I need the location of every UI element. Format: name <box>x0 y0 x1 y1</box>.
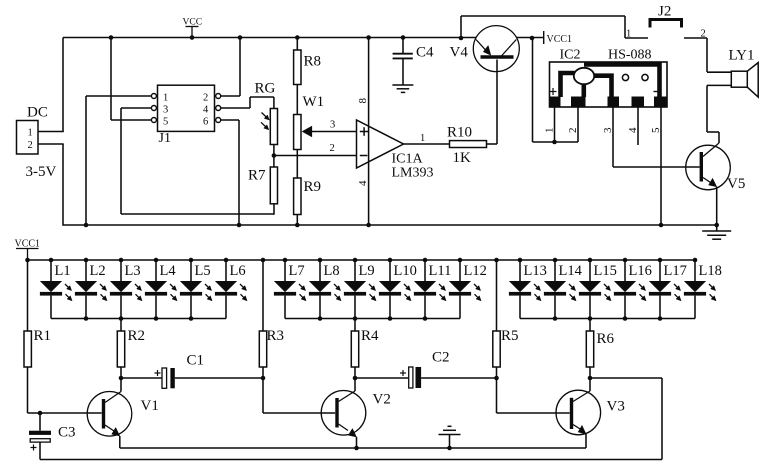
LED L18 <box>684 260 706 319</box>
junction cathode rail at x=355 <box>353 316 358 321</box>
svg-text:R3: R3 <box>267 328 285 344</box>
wire R3 bottom to V2 base <box>262 367 264 413</box>
junction IC2 pin1 on tie wire <box>552 140 557 145</box>
LED L9 <box>344 260 366 319</box>
wire V3 collector feedback to C3 (right loop) <box>590 377 662 379</box>
emission arrows of L5 <box>205 284 212 301</box>
photoresistor RG <box>270 109 277 145</box>
minus sign inside op-amp <box>360 155 368 157</box>
thick trace chip blob down to pad2 inside IC2 <box>581 82 586 97</box>
emission arrows of L3 <box>135 284 142 301</box>
LED L1 <box>40 260 62 319</box>
emission arrows of L16 <box>639 284 646 301</box>
ic J1 connector body <box>158 85 215 131</box>
wire IC2 pin 4 stub <box>637 107 639 145</box>
junction IC2 pin5 on ground rail <box>659 223 664 228</box>
junction L8 anode on VCC1 rail <box>318 258 323 263</box>
wire J1 pin1 to ground rail <box>86 95 151 97</box>
svg-text:8: 8 <box>357 98 369 104</box>
transistor V4 (PNP) circle <box>473 26 519 72</box>
wire R2 bottom to V1 collector node <box>120 367 122 378</box>
junction cathode rail at x=191 <box>189 316 194 321</box>
svg-text:5: 5 <box>163 117 168 128</box>
wire V1 emitter to emitter bus <box>119 436 121 448</box>
thick trace pad1 to chip blob inside IC2 <box>561 73 575 97</box>
junction V5 emitter on ground rail <box>714 223 719 228</box>
junction R3 on VCC1 rail <box>261 258 266 263</box>
svg-text:V1: V1 <box>141 398 159 414</box>
wire V4 emitter junction up to J2 feed <box>460 16 462 38</box>
wire J2 pin2 to speaker top terminal <box>706 38 708 72</box>
capacitor C4 <box>402 38 404 54</box>
wire cathode rail of L13-L18 <box>520 318 695 320</box>
ground under C4 <box>392 84 413 86</box>
resistor R7 <box>270 167 277 204</box>
emitter of V4 with arrow <box>476 40 488 53</box>
potentiometer W1 <box>294 115 301 150</box>
junction cathode rail at x=86 <box>84 316 89 321</box>
transistor V1 (NPN) circle <box>87 392 132 437</box>
resistor R4 <box>354 319 356 332</box>
LED L2 <box>75 260 97 319</box>
emitter of V2 with arrow <box>339 424 349 431</box>
emission arrows of L18 <box>709 284 716 301</box>
thick trace top to minus pad inside IC2 <box>584 65 660 98</box>
emission arrows of L13 <box>534 284 541 301</box>
wire J1 pin6 to ground rail <box>221 119 239 121</box>
thick trace chip blob right to pad3 inside IC2 <box>592 76 612 97</box>
wire cathode rail of L7-L12 <box>285 318 460 320</box>
wire J2 pin 1 <box>625 37 648 39</box>
junction L4 anode on VCC1 rail <box>154 258 159 263</box>
resistor R5 <box>496 260 498 331</box>
svg-text:C4: C4 <box>416 45 434 61</box>
base bar of V2 <box>335 398 338 428</box>
wire emitter/ground bus <box>120 447 586 449</box>
junction cathode rail at x=590 <box>588 316 593 321</box>
wire W1 bottom to R9 top <box>296 150 298 179</box>
wire V3 emitter to emitter bus <box>585 434 587 448</box>
connector DC 3-5V <box>17 121 39 155</box>
light arrow 1 into RG <box>262 113 268 119</box>
svg-text:DC: DC <box>27 105 48 121</box>
resistor R8 <box>294 50 301 85</box>
plus mark of C1 <box>155 372 161 374</box>
base bar of V3 <box>570 398 573 429</box>
junction L15 anode on VCC1 rail <box>588 258 593 263</box>
svg-text:V3: V3 <box>607 399 625 415</box>
junction L3 anode on VCC1 rail <box>119 258 124 263</box>
emitter of V5 with arrow <box>703 178 712 184</box>
wire op-amp power vertical (pins 8 and 4) <box>368 38 370 226</box>
capacitor C1 (polarized) <box>121 377 163 379</box>
junction L16 anode on VCC1 rail <box>623 258 628 263</box>
wire V2 emitter to emitter bus <box>356 437 358 448</box>
junction op-amp power on ground rail <box>366 223 371 228</box>
junction R8 on VCC rail <box>295 35 300 40</box>
pad 2 of IC2 <box>571 97 586 108</box>
wire cathode rail of L1-L6 <box>51 318 226 320</box>
pin circle J1-4 <box>216 106 221 111</box>
connector J2 bracket <box>649 18 684 21</box>
junction L17 anode on VCC1 rail <box>658 258 663 263</box>
wire top feed to J2 pin 1 <box>461 15 625 17</box>
capacitor C3 (polarized) <box>39 413 41 431</box>
svg-text:J2: J2 <box>658 4 671 20</box>
junction R9 on ground rail <box>295 223 300 228</box>
wire DC pin 1 lead <box>38 131 64 133</box>
emitter of V3 with arrow <box>573 425 581 430</box>
junction V2 emitter on bus <box>354 446 359 451</box>
pin circle J1-2 <box>216 94 221 99</box>
junction L11 anode on VCC1 rail <box>423 258 428 263</box>
svg-text:3: 3 <box>163 105 168 116</box>
wire IC2 pin 3 to V5 base <box>612 107 614 167</box>
svg-text:1: 1 <box>626 29 631 40</box>
plus mark inside IC2 <box>550 91 557 93</box>
wire C4 to ground symbol <box>402 58 404 85</box>
ground on emitter bus <box>449 435 451 449</box>
emission arrows of L8 <box>334 284 341 301</box>
svg-text:RG: RG <box>255 81 276 97</box>
svg-text:L10: L10 <box>394 263 417 279</box>
emission arrows of L6 <box>240 284 247 301</box>
wire non-inverting input (pin 3 net) <box>311 131 357 133</box>
svg-text:L7: L7 <box>289 263 305 279</box>
svg-text:C3: C3 <box>58 425 76 441</box>
power symbol VCC1 (top) <box>543 31 545 44</box>
wire V5 emitter to ground rail <box>716 187 718 225</box>
junction cathode rail at x=625 <box>623 316 628 321</box>
emission arrows of L17 <box>674 284 681 301</box>
svg-text:HS-088: HS-088 <box>608 48 652 63</box>
resistor R3 <box>262 260 264 331</box>
svg-text:2: 2 <box>567 128 579 134</box>
chip blob of IC2 <box>574 68 594 84</box>
transistor V5 (NPN) circle <box>686 145 731 190</box>
svg-text:R5: R5 <box>501 328 519 344</box>
wire R5 bottom to V3 base <box>496 367 498 413</box>
LED L5 <box>180 260 202 319</box>
pad 3 of IC2 <box>608 97 620 108</box>
wire J2 pin 2 <box>684 37 707 39</box>
junction op-amp power on VCC rail <box>366 35 371 40</box>
svg-text:1: 1 <box>420 133 425 144</box>
wire op-amp output pin 1 <box>404 143 450 145</box>
svg-text:L9: L9 <box>359 263 375 279</box>
minus mark inside IC2 <box>654 91 660 93</box>
emission arrows of L15 <box>604 284 611 301</box>
svg-text:V4: V4 <box>450 45 469 61</box>
svg-text:4: 4 <box>357 180 369 186</box>
wire R8 top lead <box>296 38 298 51</box>
capacitor C2 (polarized) <box>355 377 409 379</box>
junction L9 anode on VCC1 rail <box>353 258 358 263</box>
svg-text:3-5V: 3-5V <box>26 164 57 180</box>
pad 5 of IC2 <box>654 97 667 108</box>
collector of V3 <box>573 391 590 402</box>
junction L12 anode on VCC1 rail <box>458 258 463 263</box>
node VCC1 LED supply rail <box>28 259 696 261</box>
junction C3 tap on V1 base wire <box>38 411 43 416</box>
wire left rail upper (DC pin1 to VCC rail) <box>62 38 64 133</box>
base bar of V4 <box>481 55 514 58</box>
svg-text:V5: V5 <box>727 176 745 192</box>
junction cathode rail at x=555 <box>553 316 558 321</box>
wire IC2 pins 1-2 tie to VCC1 <box>533 141 579 143</box>
junction VCC on rail <box>190 35 195 40</box>
junction V4 collector / VCC1 node <box>530 36 535 41</box>
wire DC pin 2 lead <box>38 143 64 145</box>
junction L1 anode on VCC1 rail <box>49 258 54 263</box>
svg-text:6: 6 <box>203 117 208 128</box>
junction ground stem on bus <box>447 446 452 451</box>
emission arrows of L12 <box>474 284 481 301</box>
wire R1 bottom to V1 base node <box>27 367 29 413</box>
resistor R6 <box>589 319 591 332</box>
wire RG bottom to R7 top <box>273 145 275 168</box>
junction L6 anode on VCC1 rail <box>224 258 229 263</box>
svg-text:J1: J1 <box>159 131 171 146</box>
pin circle J1-5 <box>151 118 156 123</box>
emission arrows of L11 <box>439 284 446 301</box>
svg-text:2: 2 <box>330 143 335 154</box>
junction L7 anode on VCC1 rail <box>283 258 288 263</box>
wiper arrow of W1 <box>302 126 312 137</box>
svg-text:L12: L12 <box>464 263 487 279</box>
wire speaker bottom terminal to V5 collector <box>707 84 731 86</box>
emission arrows of L1 <box>65 284 72 301</box>
collector of V5 <box>703 143 719 157</box>
mounting hole 1 of IC2 <box>622 74 628 80</box>
LED L14 <box>544 260 566 319</box>
junction VCC1 rail left end <box>25 258 30 263</box>
emission arrows of L10 <box>404 284 411 301</box>
mounting hole 2 of IC2 <box>642 74 648 80</box>
base bar of V1 <box>102 399 105 429</box>
emission arrows of L7 <box>299 284 306 301</box>
wire C3 bottom to feedback rail <box>39 442 41 459</box>
wire IC2 pin 5 to ground rail <box>660 107 662 225</box>
collector of V2 <box>339 391 356 402</box>
svg-text:R4: R4 <box>361 328 379 344</box>
junction R5 on VCC1 rail <box>494 258 499 263</box>
speaker LY1 <box>731 71 747 87</box>
ground at V5 emitter <box>716 225 718 231</box>
svg-text:R1: R1 <box>34 328 52 344</box>
wire IC2 pin 2 <box>577 107 579 142</box>
LED L17 <box>649 260 671 319</box>
junction L5 anode on VCC1 rail <box>189 258 194 263</box>
LED L16 <box>614 260 636 319</box>
junction L2 anode on VCC1 rail <box>84 258 89 263</box>
LED L6 <box>215 260 237 319</box>
wire C2 to V3 base node <box>421 377 496 379</box>
light arrow 2 into RG <box>261 122 267 128</box>
junction cathode rail at x=156 <box>154 316 159 321</box>
svg-text:1: 1 <box>544 128 556 134</box>
LED L10 <box>379 260 401 319</box>
svg-text:C1: C1 <box>187 353 205 369</box>
junction V3 collector node <box>588 376 593 381</box>
svg-text:2: 2 <box>701 29 706 40</box>
svg-text:R9: R9 <box>304 179 322 195</box>
junction J1-pin2 net on VCC rail <box>238 35 243 40</box>
junction V3 base node <box>494 376 499 381</box>
wire J1 pin3 to R7 bottom <box>121 107 151 109</box>
svg-text:R7: R7 <box>248 168 266 184</box>
LED L13 <box>509 260 531 319</box>
emission arrows of L9 <box>369 284 376 301</box>
svg-text:L15: L15 <box>594 263 617 279</box>
plus mark of C2 <box>400 372 406 374</box>
svg-text:L1: L1 <box>55 263 71 279</box>
wire IC2 pin 1 <box>554 107 556 142</box>
pin circle J1-1 <box>151 94 156 99</box>
op-amp U1 IC1A triangle <box>357 120 404 168</box>
svg-text:V2: V2 <box>373 392 391 408</box>
svg-text:VCC1: VCC1 <box>15 239 41 250</box>
svg-text:R6: R6 <box>597 331 615 347</box>
LED L11 <box>414 260 436 319</box>
pad 4 of IC2 <box>632 97 645 108</box>
svg-text:C2: C2 <box>432 350 450 366</box>
resistor R1 <box>27 260 29 331</box>
svg-text:2: 2 <box>203 93 208 104</box>
svg-text:LM393: LM393 <box>392 166 434 181</box>
junction V2 collector node <box>353 376 358 381</box>
svg-text:1: 1 <box>163 93 168 104</box>
svg-text:4: 4 <box>203 105 209 116</box>
resistor R10 <box>450 141 487 148</box>
svg-text:L3: L3 <box>125 263 141 279</box>
svg-text:IC2: IC2 <box>560 48 581 63</box>
wire top-section ground rail <box>63 224 717 226</box>
svg-text:L18: L18 <box>699 263 722 279</box>
svg-text:2: 2 <box>28 140 33 151</box>
plus mark of C3 <box>31 447 37 449</box>
junction C4 on VCC rail <box>401 35 406 40</box>
LED L7 <box>274 260 296 319</box>
svg-text:L13: L13 <box>524 263 547 279</box>
svg-text:IC1A: IC1A <box>392 152 424 167</box>
svg-text:L17: L17 <box>664 263 687 279</box>
junction V1 collector node <box>119 376 124 381</box>
junction J1-pin5 net on VCC rail <box>109 35 114 40</box>
svg-text:L16: L16 <box>629 263 652 279</box>
svg-text:3: 3 <box>602 127 614 133</box>
emission arrows of L4 <box>170 284 177 301</box>
junction cathode rail at x=320 <box>318 316 323 321</box>
svg-text:LY1: LY1 <box>729 48 755 64</box>
wire J1 pin2 to VCC rail <box>221 95 240 97</box>
junction L13 anode on VCC1 rail <box>518 258 523 263</box>
collector of V1 <box>105 392 121 403</box>
pad 1 of IC2 <box>550 97 561 108</box>
junction cathode rail at x=425 <box>423 316 428 321</box>
wire R10 to V4 base <box>487 143 498 145</box>
svg-text:L5: L5 <box>195 263 211 279</box>
wire J1 pin5 to VCC rail <box>110 38 112 121</box>
svg-text:3: 3 <box>330 120 335 131</box>
wire inverting input (pin 2 net) <box>274 155 357 157</box>
wire left rail lower (DC pin2 to ground rail) <box>62 144 64 226</box>
LED L12 <box>449 260 471 319</box>
ic IC2 module body HS-088 <box>550 62 668 107</box>
junction node RG/R7/op-amp inverting input <box>272 153 277 158</box>
junction J1-pin6 net on ground rail <box>237 223 242 228</box>
svg-text:1: 1 <box>28 128 33 139</box>
base bar of V5 <box>700 152 703 182</box>
svg-text:L4: L4 <box>160 263 177 279</box>
junction V4 emitter / top rail <box>459 36 464 41</box>
svg-text:R2: R2 <box>128 328 146 344</box>
emission arrows of L2 <box>100 284 107 301</box>
wire R8 to W1 <box>296 85 298 115</box>
plus sign inside op-amp <box>360 131 369 133</box>
resistor R9 <box>294 178 301 215</box>
svg-text:1K: 1K <box>453 150 472 166</box>
junction cathode rail at x=660 <box>658 316 663 321</box>
wire R4 bottom to V2 collector node <box>354 367 356 378</box>
resistor R2 <box>120 319 122 332</box>
svg-text:W1: W1 <box>303 94 325 110</box>
emission arrows of L14 <box>569 284 576 301</box>
wire feedback bottom rail <box>40 459 662 461</box>
svg-text:L11: L11 <box>429 263 452 279</box>
pin circle J1-3 <box>151 106 156 111</box>
junction L10 anode on VCC1 rail <box>388 258 393 263</box>
svg-text:5: 5 <box>650 127 662 133</box>
junction J1-pin1 net on ground rail <box>84 223 89 228</box>
LED L4 <box>145 260 167 319</box>
svg-text:L6: L6 <box>230 263 246 279</box>
svg-text:R8: R8 <box>304 54 322 70</box>
svg-text:R10: R10 <box>447 125 472 141</box>
wire R6 bottom to V3 collector node <box>589 367 591 378</box>
junction cathode rail at x=390 <box>388 316 393 321</box>
pin circle J1-6 <box>216 118 221 123</box>
wire J1 pin4 to RG top <box>221 107 250 109</box>
svg-text:4: 4 <box>627 127 639 133</box>
junction cathode rail at x=121 <box>119 316 124 321</box>
wire C1 to V2 base node <box>175 377 263 379</box>
junction V2 base node <box>261 376 266 381</box>
transistor V3 (NPN) circle <box>556 390 601 435</box>
svg-text:VCC1: VCC1 <box>547 34 573 45</box>
svg-text:L14: L14 <box>559 263 583 279</box>
LED L15 <box>579 260 601 319</box>
svg-text:L8: L8 <box>324 263 340 279</box>
LED L8 <box>309 260 331 319</box>
junction L14 anode on VCC1 rail <box>553 258 558 263</box>
wire R9 bottom lead <box>296 215 298 226</box>
node VCC top power rail <box>63 37 476 39</box>
emitter of V1 with arrow <box>105 425 114 431</box>
collector of V4 <box>501 40 517 58</box>
svg-text:L2: L2 <box>90 263 106 279</box>
junction L18 anode on VCC1 rail <box>693 258 698 263</box>
transistor V2 (NPN) circle <box>321 391 366 436</box>
LED L3 <box>110 260 132 319</box>
